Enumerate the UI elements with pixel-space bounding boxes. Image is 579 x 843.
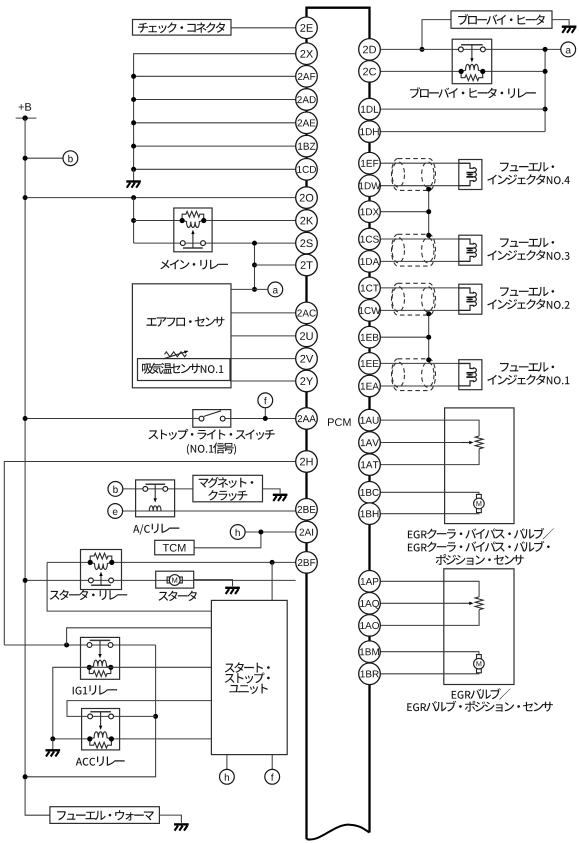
relay: IG1 relay (IG1リレー)	[81, 637, 120, 679]
wire: fuel warmer to ground	[159, 815, 181, 823]
label: EGRクーラ・バイパス・バルブ x3	[408, 528, 554, 539]
label: (NO.1信号)	[187, 443, 236, 455]
connector circle (f) bottom	[265, 769, 280, 784]
wire: main relay bus x=133 (2O line down to 2S line)	[133, 198, 135, 244]
wire: 2S-2T-(a) vertical x=254	[254, 243, 256, 289]
relay: starter relay (スタータ・リレー)	[81, 550, 122, 590]
junction dots at 2S/2T lines x=254	[252, 241, 257, 246]
wire: 1DL line	[381, 108, 546, 110]
wire: unit stub to connector (f)	[271, 755, 273, 770]
start-stop unit box (スタート・ストップ・ユニット)	[211, 600, 287, 754]
wire: injector No.3 pair lines	[381, 238, 471, 240]
shielded twisted pair for injector No.3	[392, 234, 436, 266]
connector circle (b) top	[63, 151, 78, 166]
PCM right connector pins 2D..1BR	[359, 39, 381, 61]
wire: connector (h) to 2AI	[245, 531, 296, 533]
+B battery feed label	[19, 103, 32, 111]
ground: starter ground	[225, 587, 240, 589]
wire: 1BM to motor top	[381, 652, 479, 655]
ground: magnet clutch ground	[273, 494, 288, 496]
wire: airflow sensor (a) line	[231, 288, 268, 290]
wire: 2BF drop to start-stop unit top	[271, 562, 273, 600]
junction dot: coil ground bus at ACC coil	[50, 736, 55, 741]
wire: injector No.1 pair lines	[381, 362, 471, 364]
intake air temp sensor box (吸気温センサNO.1)	[138, 359, 231, 381]
wire: injector No.2 pair lines	[381, 287, 471, 289]
wire: 2AC line	[231, 312, 296, 314]
label: EGRバルブ x2	[452, 688, 511, 699]
wire: starter relay coil line to 2BF	[47, 561, 296, 563]
fuel injector No.4 symbol	[459, 160, 482, 190]
label: ACCリレー	[76, 756, 125, 766]
wire: diagnosis bus vertical x=133 with branches to 2X,2AF,2AD,2AE,1BZ,1CD	[134, 54, 296, 170]
wire: right collector vertical x=544.6 (2D,2C,1DL,1DH)	[544, 49, 546, 131]
wire: stop light switch line to 2AA	[25, 418, 296, 420]
wire: 1DH line	[381, 131, 546, 133]
wire: 1BH to motor bottom	[381, 509, 479, 514]
wire: 1EB line to shield drains	[381, 336, 429, 338]
motor: EGR cooler bypass valve	[477, 494, 482, 498]
wire: 1BC to motor top	[381, 492, 479, 495]
wire: 1AU to position sensor resistor top	[381, 420, 480, 436]
wire: 2D line through relay contacts to (a)	[381, 48, 561, 50]
position sensor resistor (EGR cooler)	[475, 436, 483, 449]
connector circle (e)	[108, 504, 123, 519]
fuel injector No.1 symbol	[459, 360, 482, 390]
wire: check connector to pin 2E	[231, 27, 296, 29]
ground: blow-by heater ground	[562, 26, 577, 28]
wire: starter coil feed drop to start-stop unit	[47, 562, 211, 611]
wire: 2C line through relay coil	[381, 70, 546, 72]
position sensor resistor (EGR valve)	[475, 597, 483, 610]
ground: fuel warmer ground	[174, 823, 189, 825]
wire: IG1 contact line down to ACC junction and +B-bus bottom line	[25, 645, 156, 777]
label: フューエル・インジェクタNO.4	[500, 162, 554, 171]
+B terminal tick	[16, 117, 37, 119]
wire: starter relay contact line from +B bus	[25, 579, 296, 581]
wire: 2O feed line	[25, 197, 296, 199]
fuel injector No.2 symbol	[459, 284, 482, 314]
wire: injector No.4 pair lines	[381, 162, 471, 164]
label: IG1リレー	[73, 685, 117, 695]
wire: magnet clutch to ground	[263, 489, 281, 493]
wire: shield drain vertical (No.2/No.1)	[428, 314, 430, 360]
connector circle (a) left	[268, 282, 283, 297]
label: メイン・リレー	[160, 259, 228, 269]
label: ブローバイ・ヒータ・リレー	[410, 87, 536, 98]
wire: blow-by heater to ground	[552, 20, 569, 26]
label: A/Cリレー	[133, 524, 179, 535]
wire: 1AQ wiper with arrow	[381, 602, 462, 604]
ground: diagnosis bus ground	[133, 169, 135, 180]
check connector box (チェック・コネクタ)	[133, 20, 232, 36]
connector circle (a) right	[561, 42, 576, 57]
wire: shield drain vertical (No.4/No.3)	[428, 189, 430, 235]
shielded twisted pair for injector No.4	[392, 159, 436, 191]
motor: EGR valve	[477, 655, 482, 659]
label: ストップ・ライト・スイッチ	[148, 429, 274, 440]
PCM left connector pins 2E..2BF	[296, 17, 318, 39]
wire: 1AP to resistor top	[381, 581, 480, 597]
wire: ACC contact feed from unit through contacts	[67, 701, 211, 717]
wire: blow-by heater feed from 2D line	[422, 20, 451, 50]
PCM connector bus: top bar and left/right trunk lines	[307, 8, 370, 839]
blow-by heater box (ブローバイ・ヒータ)	[451, 11, 552, 28]
stop light switch contacts and blade	[204, 417, 220, 420]
shielded twisted pair for injector No.2	[392, 283, 436, 315]
airflow sensor box (エアフロ・センサ)	[132, 284, 231, 388]
wire: starter to ground	[194, 580, 233, 587]
wire: 1DX line to shield drains	[381, 211, 429, 213]
fuel injector No.3 symbol	[459, 235, 482, 265]
wire: IG1 coil line to unit and ground drop	[89, 666, 212, 668]
relay: A/C relay (contacts top, plain coil)	[136, 480, 175, 517]
label: フューエル・インジェクタNO.1	[500, 362, 554, 371]
wire: 2T line	[255, 264, 296, 266]
wire: 2S contact line through main relay	[134, 242, 296, 244]
connector circle (f) at stop light line	[258, 393, 273, 408]
connector circle (b) lower	[108, 482, 123, 497]
thermistor symbol on sensor box	[165, 352, 187, 357]
connector circle (h) at 2AI line	[230, 525, 245, 540]
wire: 2U line	[231, 335, 296, 337]
starter motor box (スタータ)	[156, 571, 194, 588]
magnet clutch box (マグネット・クラッチ)	[193, 475, 263, 502]
wire: connector (b) through A/C relay contacts to magnet clutch	[123, 488, 193, 490]
ground: IG1/ACC coil ground	[52, 739, 54, 749]
wire: +B bus vertical x=24.6 from +B down to fuel warmer	[25, 118, 50, 815]
label: スタータ・リレー	[50, 590, 128, 600]
label: スタータ	[158, 591, 197, 601]
EGR cooler bypass valve box	[445, 408, 514, 524]
wire: connector (e) to A/C relay coil line then 2BE	[123, 510, 296, 512]
wire: 2V line	[230, 358, 296, 360]
EGR valve box	[444, 569, 514, 685]
wire: IG1 contact line (from 2H drop) with feed to unit	[4, 644, 155, 646]
wire: branch to connector (b)	[25, 157, 63, 159]
fuel warmer box (フューエル・ウォーマ)	[50, 807, 159, 824]
wire: ACC coil line from ground bus to unit	[53, 738, 212, 740]
shielded twisted pair for injector No.1	[392, 359, 436, 391]
wire: 2K coil line through main relay	[134, 220, 296, 222]
relay: blow-by heater relay	[452, 39, 492, 83]
wire: 1BR to motor bottom	[381, 669, 479, 674]
label: フューエル・インジェクタNO.3	[500, 238, 554, 247]
junction dots on diagnosis bus	[131, 74, 136, 79]
relay: main relay (メイン・リレー)	[174, 208, 212, 252]
wire: 1AT to position sensor resistor bottom	[381, 449, 480, 465]
wire: TCM to 2AI junction	[194, 532, 261, 548]
stop light switch box	[193, 410, 231, 428]
label: フューエル・インジェクタNO.2	[500, 287, 554, 296]
label: PCM	[328, 418, 351, 426]
relay: ACC relay (ACCリレー)	[82, 709, 120, 750]
wire: 2Y line	[230, 380, 296, 382]
wire: 2H line with left drop to IG1 contact line	[4, 462, 295, 646]
wire: unit stub to connector (h)	[226, 755, 228, 770]
wire: 1AV wiper with arrow	[381, 442, 462, 444]
connector circle (h) bottom	[220, 769, 235, 784]
TCM box	[155, 540, 194, 555]
wire: 1AO to resistor bottom	[381, 610, 480, 626]
